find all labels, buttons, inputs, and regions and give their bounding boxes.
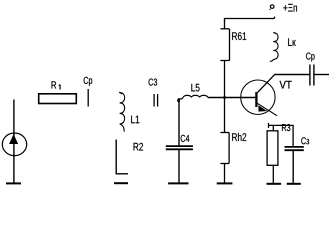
label C5 bbox=[301, 137, 309, 144]
wire (Rh2 to ground) bbox=[224, 164, 226, 183]
ground (C4) bbox=[168, 182, 188, 184]
capacitor Cp (output) bbox=[310, 65, 314, 86]
ground (current source) bbox=[6, 182, 21, 184]
wire (R61 to base node) bbox=[224, 61, 226, 133]
wire (R2 branch corner) bbox=[116, 140, 128, 174]
label R3 bbox=[282, 124, 290, 131]
capacitor C3 bbox=[149, 79, 158, 107]
inductor L5 bbox=[177, 95, 208, 101]
capacitor C4 bbox=[166, 146, 193, 149]
transistor VT bbox=[241, 75, 277, 116]
label +Ep bbox=[283, 4, 297, 12]
ground (R2) bbox=[114, 182, 128, 184]
ground (R3) bbox=[267, 183, 282, 185]
wire (Cp to output) bbox=[314, 74, 329, 76]
capacitor C5 bbox=[285, 147, 304, 150]
resistor R3 bbox=[267, 125, 278, 183]
wire (collector to Cp) bbox=[274, 74, 310, 76]
resistor R61 bbox=[220, 29, 229, 61]
label Rh2 bbox=[232, 133, 246, 141]
resistor R1 bbox=[39, 81, 77, 103]
label VT bbox=[280, 81, 292, 89]
resistor Rh2 bbox=[220, 133, 229, 164]
current source G1 bbox=[2, 100, 26, 183]
capacitor Cp (input, single plate) bbox=[84, 77, 93, 107]
label Cp (output) bbox=[306, 53, 315, 62]
wire (base node: L5 to transistor base, through divider node) bbox=[208, 97, 257, 99]
node junction dot bbox=[223, 96, 226, 99]
wire (emitter node horizontal) bbox=[269, 123, 294, 146]
wire (C4 to ground) bbox=[178, 150, 180, 182]
wire (C4 branch vertical) bbox=[178, 99, 180, 145]
label L5 bbox=[191, 84, 199, 92]
inductor Lk bbox=[270, 32, 278, 61]
label Lk bbox=[288, 38, 296, 46]
ground (Rh2) bbox=[217, 182, 233, 184]
label L1 bbox=[131, 116, 139, 124]
ground (C5) bbox=[287, 183, 301, 185]
label R2 bbox=[134, 143, 143, 151]
label R61 bbox=[232, 32, 246, 40]
wire (+supply rail) bbox=[225, 19, 275, 29]
wire (C5 to ground) bbox=[292, 150, 294, 183]
label C4 bbox=[181, 135, 190, 142]
inductor L1 bbox=[119, 92, 125, 132]
terminal +Ep bbox=[270, 5, 275, 19]
